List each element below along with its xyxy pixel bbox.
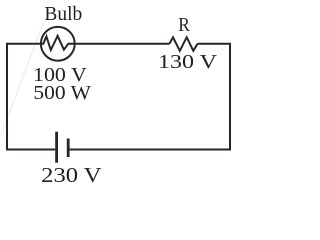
faint scan crease artifact (1, 21, 44, 135)
svg-text:230 V: 230 V (41, 163, 101, 187)
svg-text:R: R (178, 14, 190, 36)
svg-text:Bulb: Bulb (44, 3, 82, 25)
battery cell long plate (left) (55, 132, 58, 163)
bulb B1 filament zigzag (41, 36, 75, 50)
battery cell short plate (right) (67, 139, 70, 158)
wire right loop: from resistor right, right side, bottom to battery (70, 44, 230, 150)
svg-text:130 V: 130 V (158, 51, 218, 73)
wire left loop: top-left, left side, bottom to battery (7, 44, 55, 150)
resistor R zigzag (169, 37, 197, 51)
bulb B1 circle (41, 27, 75, 61)
wire top middle: bulb to resistor (75, 43, 170, 45)
svg-text:500 W: 500 W (33, 82, 91, 104)
